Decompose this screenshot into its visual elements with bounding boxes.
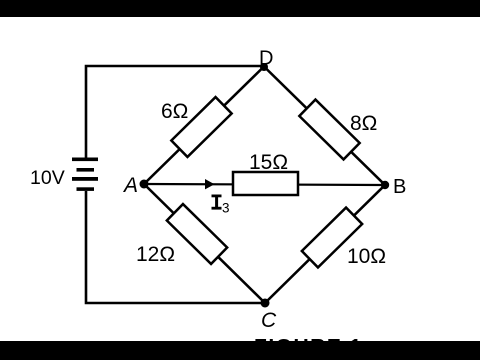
- svg-text:12Ω: 12Ω: [136, 243, 175, 266]
- svg-text:10Ω: 10Ω: [347, 245, 386, 268]
- letterbox bar bottom: [0, 341, 480, 360]
- svg-text:8Ω: 8Ω: [350, 112, 377, 135]
- svg-text:6Ω: 6Ω: [161, 100, 188, 123]
- wire: battery top to corner to node D (top rail): [86, 66, 264, 158]
- wire: D to B: [264, 67, 385, 186]
- battery 10V: [72, 158, 98, 191]
- resistor 8 ohm (D-B branch): [299, 100, 359, 160]
- wire: A to C: [144, 184, 265, 303]
- svg-text:D: D: [259, 48, 273, 70]
- node A: [140, 180, 149, 189]
- resistor 12 ohm (A-C branch): [167, 204, 227, 264]
- svg-text:10V: 10V: [30, 167, 65, 189]
- resistor 15 ohm (A-B middle branch): [233, 172, 298, 195]
- svg-text:15Ω: 15Ω: [249, 151, 288, 174]
- node D: [260, 63, 268, 71]
- node C: [261, 299, 270, 308]
- resistor 10 ohm (C-B branch): [302, 208, 362, 268]
- wire: A to D: [144, 67, 264, 185]
- svg-text:C: C: [261, 309, 277, 332]
- node B: [381, 181, 389, 189]
- label I3: [212, 195, 222, 198]
- svg-text:3: 3: [222, 201, 230, 216]
- svg-text:A: A: [122, 174, 138, 197]
- letterbox bar top: [0, 0, 480, 17]
- resistor 6 ohm (A-D branch): [171, 97, 231, 157]
- wire: battery bottom to corner to node C (bottom rail): [86, 191, 265, 303]
- wire: A to B (middle branch): [144, 184, 385, 185]
- current arrow I3: [205, 179, 215, 189]
- svg-text:B: B: [393, 176, 406, 198]
- wire: C to B: [265, 185, 385, 303]
